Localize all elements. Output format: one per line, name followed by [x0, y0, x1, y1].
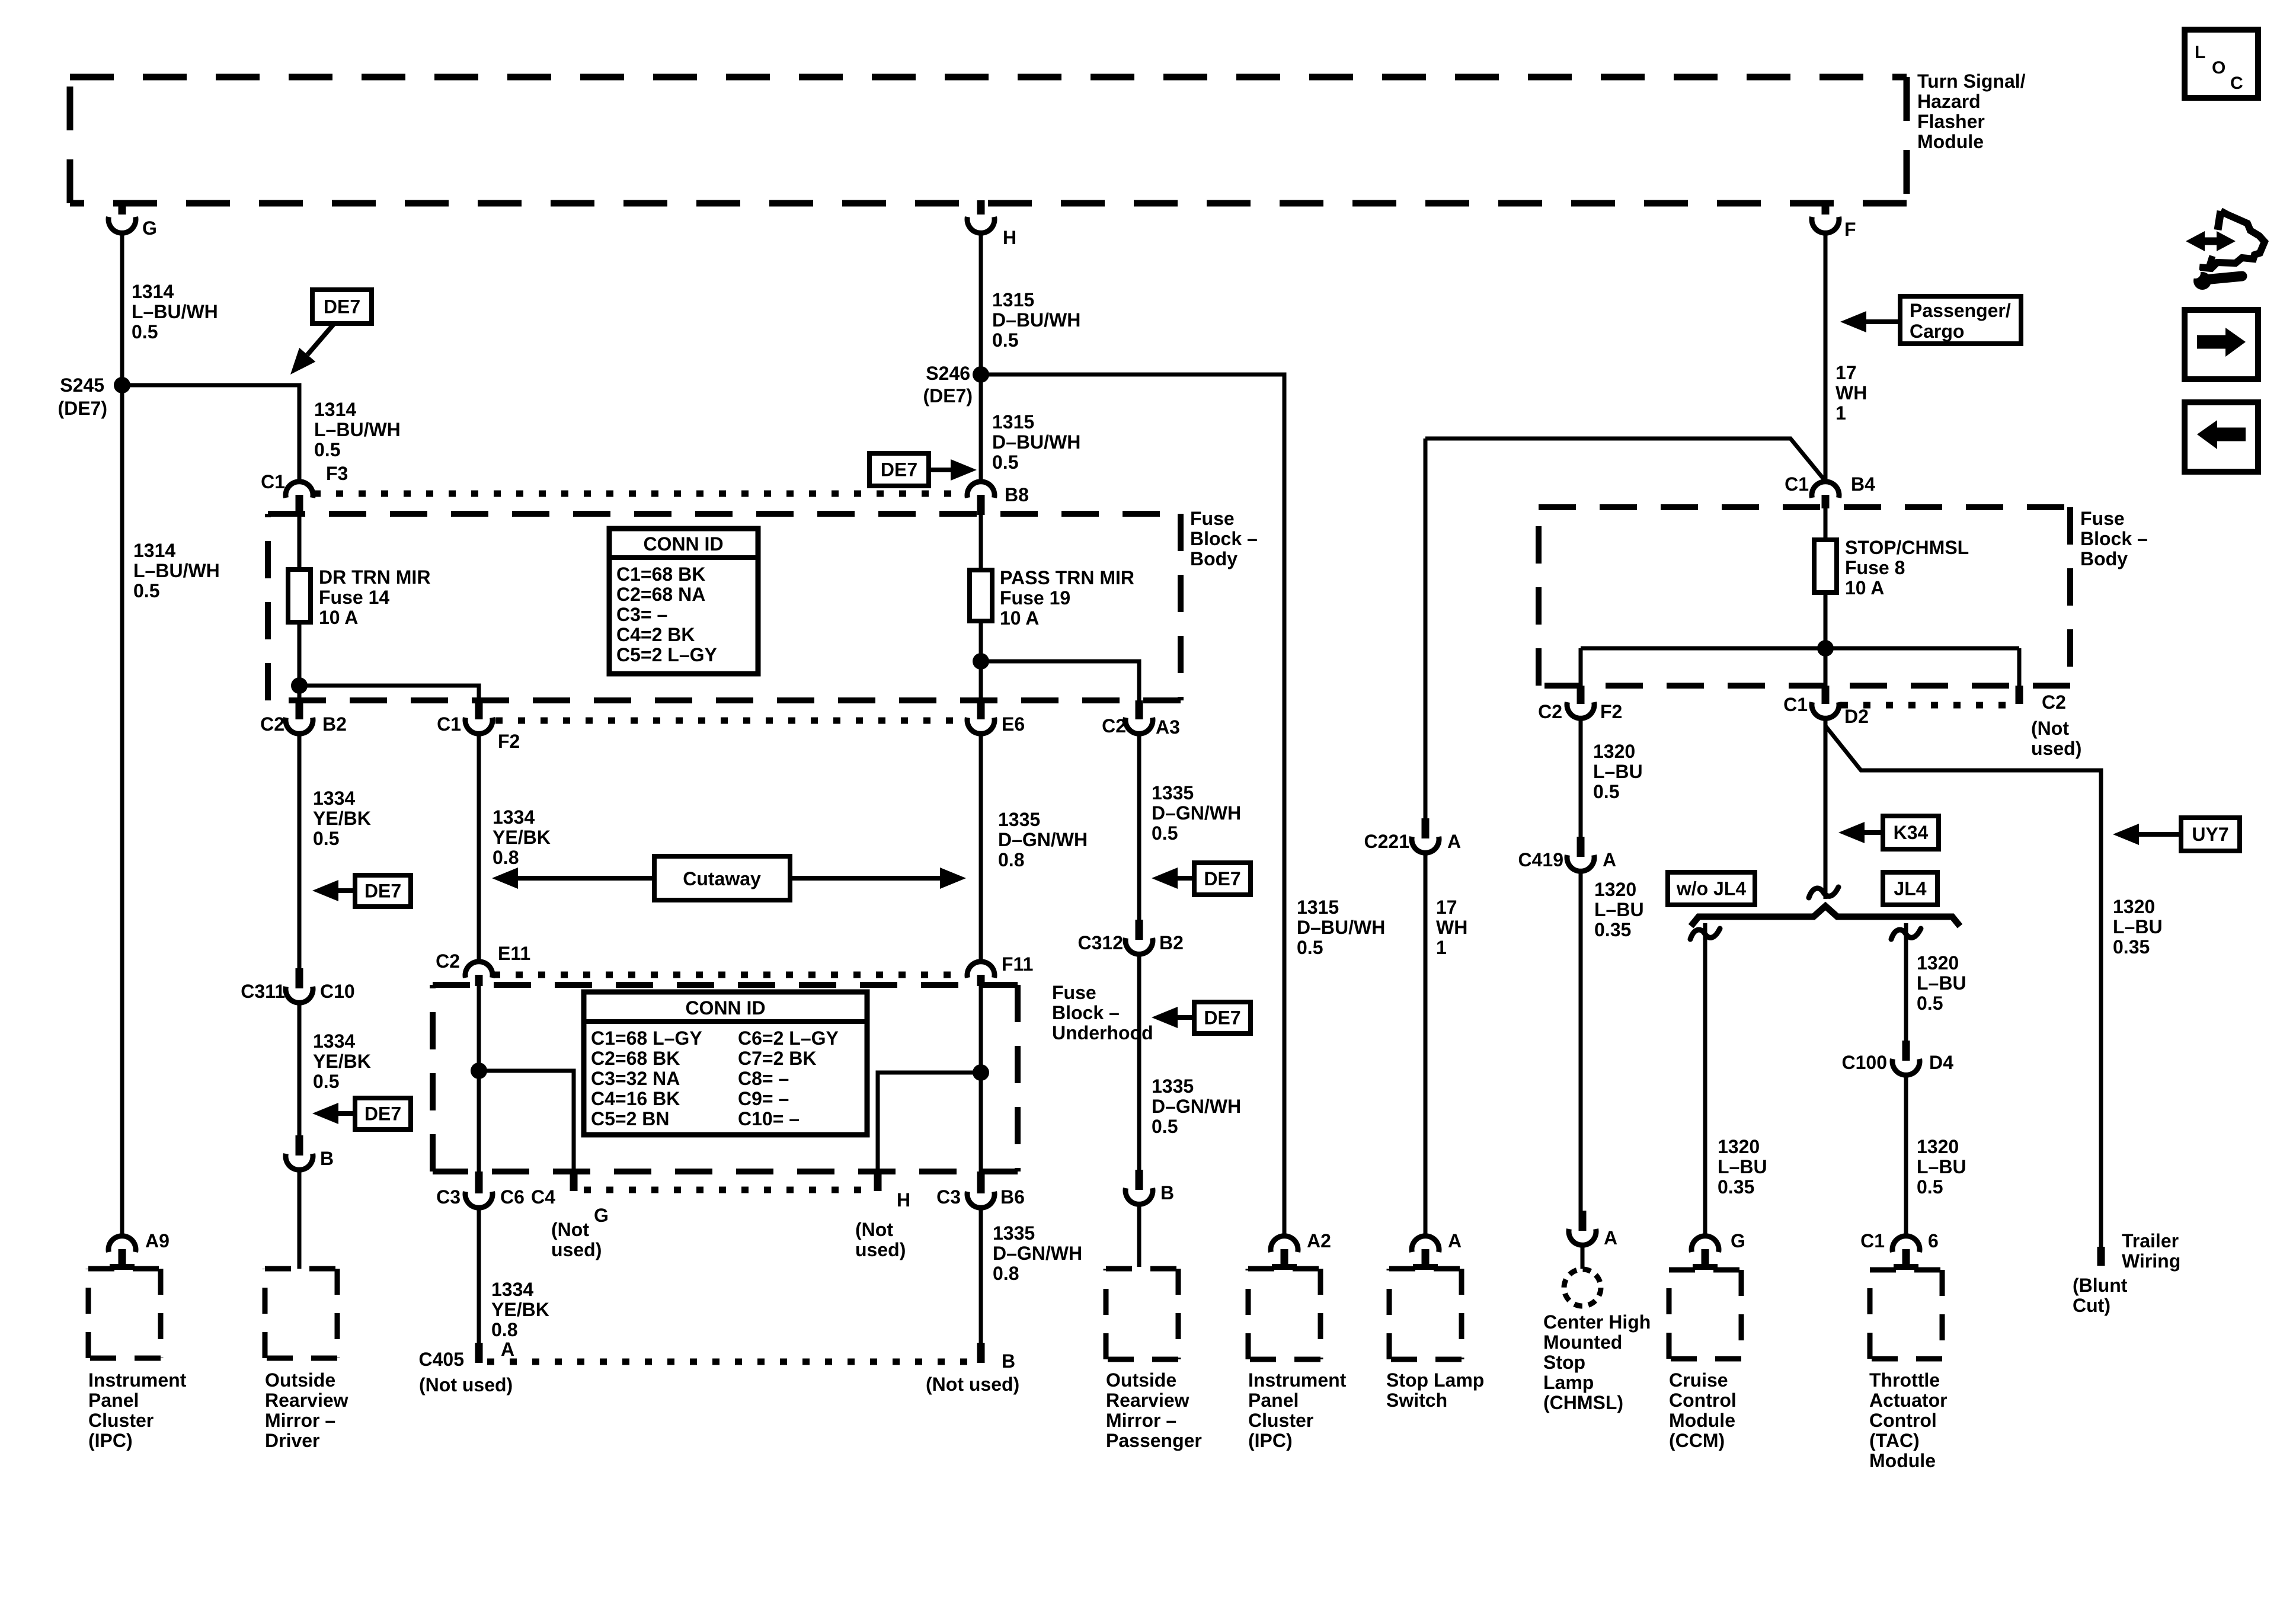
svg-text:C2: C2 — [1538, 701, 1562, 722]
svg-text:Fuse: Fuse — [1052, 982, 1096, 1003]
svg-text:Panel: Panel — [88, 1390, 139, 1411]
svg-text:A9: A9 — [145, 1230, 170, 1251]
svg-text:w/o JL4: w/o JL4 — [1676, 878, 1747, 900]
svg-text:C1=68 L–GY: C1=68 L–GY — [591, 1028, 702, 1049]
svg-text:DE7: DE7 — [1204, 1007, 1240, 1029]
svg-text:used): used) — [2031, 738, 2081, 759]
svg-text:D–BU/WH: D–BU/WH — [992, 431, 1080, 453]
svg-text:Fuse 8: Fuse 8 — [1845, 557, 1905, 578]
svg-text:0.8: 0.8 — [998, 849, 1024, 870]
svg-text:G: G — [594, 1205, 609, 1226]
svg-text:DE7: DE7 — [881, 459, 917, 481]
svg-text:17: 17 — [1835, 362, 1857, 383]
svg-text:Control: Control — [1869, 1410, 1937, 1431]
svg-text:Fuse 14: Fuse 14 — [319, 587, 389, 608]
svg-text:WH: WH — [1835, 382, 1867, 404]
svg-text:JL4: JL4 — [1894, 878, 1926, 900]
svg-text:UY7: UY7 — [2192, 824, 2228, 845]
svg-text:C10= –: C10= – — [738, 1108, 800, 1129]
svg-text:C311: C311 — [241, 981, 285, 1002]
svg-text:0.5: 0.5 — [314, 439, 340, 460]
svg-text:DR TRN MIR: DR TRN MIR — [319, 566, 430, 588]
svg-text:1334: 1334 — [493, 806, 535, 828]
svg-text:CONN ID: CONN ID — [643, 533, 723, 555]
svg-text:(Not: (Not — [855, 1219, 893, 1240]
svg-text:Cargo: Cargo — [1910, 321, 1964, 342]
svg-text:(Not used): (Not used) — [926, 1374, 1019, 1395]
svg-text:F: F — [1844, 219, 1856, 240]
svg-text:B: B — [1160, 1182, 1174, 1204]
svg-text:C4: C4 — [531, 1186, 555, 1208]
svg-text:D4: D4 — [1929, 1052, 1953, 1073]
svg-text:0.5: 0.5 — [992, 329, 1018, 351]
svg-text:C: C — [2230, 73, 2243, 93]
svg-text:B6: B6 — [1000, 1186, 1025, 1208]
svg-text:1314: 1314 — [132, 281, 174, 302]
svg-text:Rearview: Rearview — [265, 1390, 348, 1411]
svg-text:C1: C1 — [261, 471, 285, 492]
svg-text:1314: 1314 — [314, 399, 356, 420]
svg-text:A2: A2 — [1307, 1230, 1331, 1251]
svg-text:L–BU: L–BU — [1593, 761, 1643, 782]
svg-text:CONN ID: CONN ID — [685, 997, 765, 1019]
svg-text:C3: C3 — [936, 1186, 961, 1208]
svg-text:A: A — [1604, 1227, 1617, 1249]
svg-text:A: A — [1447, 831, 1461, 852]
svg-text:Hazard: Hazard — [1917, 91, 1981, 112]
svg-text:C1: C1 — [437, 713, 461, 735]
svg-text:C5=2 BN: C5=2 BN — [591, 1108, 670, 1129]
svg-text:C3= –: C3= – — [616, 604, 667, 625]
svg-text:Wiring: Wiring — [2122, 1250, 2180, 1272]
svg-text:PASS TRN MIR: PASS TRN MIR — [1000, 567, 1134, 588]
svg-text:0.35: 0.35 — [1594, 919, 1631, 940]
svg-text:C221: C221 — [1364, 831, 1410, 852]
svg-text:L–BU/WH: L–BU/WH — [314, 419, 401, 440]
svg-text:Instrument: Instrument — [1248, 1369, 1347, 1391]
svg-text:Mounted: Mounted — [1543, 1331, 1622, 1353]
svg-text:0.5: 0.5 — [1917, 993, 1943, 1014]
svg-text:C8= –: C8= – — [738, 1068, 789, 1089]
svg-text:C100: C100 — [1842, 1052, 1888, 1073]
svg-text:Lamp: Lamp — [1543, 1372, 1594, 1393]
svg-text:1335: 1335 — [1152, 1076, 1194, 1097]
svg-text:1335: 1335 — [993, 1222, 1035, 1244]
svg-text:Mirror –: Mirror – — [265, 1410, 335, 1431]
svg-text:F11: F11 — [1002, 953, 1033, 975]
svg-text:Passenger/: Passenger/ — [1910, 300, 2011, 321]
svg-text:C419: C419 — [1518, 849, 1564, 870]
svg-text:Turn Signal/: Turn Signal/ — [1917, 71, 2026, 92]
svg-text:D–GN/WH: D–GN/WH — [1152, 1096, 1241, 1117]
svg-text:(CHMSL): (CHMSL) — [1543, 1392, 1623, 1413]
svg-text:0.8: 0.8 — [491, 1319, 517, 1340]
svg-text:Switch: Switch — [1386, 1390, 1447, 1411]
svg-text:C6=2 L–GY: C6=2 L–GY — [738, 1028, 839, 1049]
svg-text:L–BU/WH: L–BU/WH — [133, 560, 220, 581]
svg-text:(DE7): (DE7) — [923, 385, 973, 406]
svg-text:C5=2 L–GY: C5=2 L–GY — [616, 644, 717, 665]
svg-text:6: 6 — [1928, 1230, 1939, 1251]
svg-text:B8: B8 — [1005, 484, 1029, 505]
svg-text:(Not: (Not — [551, 1219, 589, 1240]
svg-text:(Not used): (Not used) — [419, 1374, 513, 1395]
svg-text:H: H — [897, 1189, 910, 1211]
svg-text:L–BU: L–BU — [1718, 1156, 1767, 1177]
svg-text:0.35: 0.35 — [1718, 1176, 1754, 1198]
svg-text:(IPC): (IPC) — [88, 1430, 133, 1451]
svg-text:C1: C1 — [1860, 1230, 1885, 1251]
svg-text:1320: 1320 — [1917, 1136, 1959, 1157]
svg-text:0.5: 0.5 — [133, 580, 159, 601]
svg-text:Flasher: Flasher — [1917, 111, 1985, 132]
svg-text:L–BU/WH: L–BU/WH — [132, 301, 218, 322]
svg-text:Cutaway: Cutaway — [683, 868, 761, 889]
svg-text:Outside: Outside — [1106, 1369, 1176, 1391]
svg-text:0.5: 0.5 — [992, 452, 1018, 473]
svg-text:A: A — [1603, 849, 1616, 870]
svg-text:A: A — [501, 1339, 514, 1360]
svg-text:C2: C2 — [2042, 692, 2066, 713]
svg-text:Underhood: Underhood — [1052, 1022, 1153, 1044]
svg-text:17: 17 — [1436, 897, 1457, 918]
svg-text:Block –: Block – — [1190, 528, 1258, 549]
svg-text:G: G — [142, 217, 157, 239]
svg-text:Center High: Center High — [1543, 1311, 1651, 1333]
svg-text:L–BU: L–BU — [2113, 916, 2163, 937]
svg-text:Actuator: Actuator — [1869, 1390, 1948, 1411]
svg-text:Throttle: Throttle — [1869, 1369, 1940, 1391]
svg-text:0.5: 0.5 — [132, 321, 158, 343]
svg-text:B: B — [1002, 1350, 1015, 1372]
svg-text:0.5: 0.5 — [1917, 1176, 1943, 1198]
svg-text:0.8: 0.8 — [993, 1263, 1019, 1284]
svg-text:A: A — [1448, 1230, 1462, 1251]
svg-text:F2: F2 — [498, 731, 520, 752]
svg-text:Body: Body — [1190, 548, 1237, 569]
svg-text:0.8: 0.8 — [493, 847, 519, 868]
svg-text:DE7: DE7 — [364, 1103, 401, 1125]
svg-text:L–BU: L–BU — [1917, 972, 1966, 994]
svg-text:1320: 1320 — [1718, 1136, 1760, 1157]
svg-text:D–BU/WH: D–BU/WH — [1297, 917, 1385, 938]
svg-text:A3: A3 — [1156, 716, 1180, 738]
svg-text:1335: 1335 — [998, 809, 1040, 830]
svg-text:Rearview: Rearview — [1106, 1390, 1189, 1411]
svg-text:C3: C3 — [436, 1186, 461, 1208]
svg-text:H: H — [1003, 227, 1016, 248]
svg-text:O: O — [2212, 58, 2225, 78]
svg-text:Instrument: Instrument — [88, 1369, 187, 1391]
svg-text:Trailer: Trailer — [2122, 1230, 2179, 1251]
svg-text:0.35: 0.35 — [2113, 936, 2150, 958]
svg-text:S245: S245 — [60, 375, 104, 396]
svg-text:0.5: 0.5 — [313, 1071, 339, 1092]
svg-text:1334: 1334 — [491, 1279, 533, 1300]
svg-text:F3: F3 — [326, 463, 348, 484]
svg-text:Stop: Stop — [1543, 1352, 1585, 1373]
svg-text:Driver: Driver — [265, 1430, 320, 1451]
svg-text:10 A: 10 A — [319, 607, 358, 628]
svg-text:K34: K34 — [1894, 822, 1929, 843]
svg-text:Fuse 19: Fuse 19 — [1000, 587, 1070, 609]
svg-text:C2: C2 — [436, 950, 460, 972]
svg-text:DE7: DE7 — [364, 881, 401, 902]
svg-text:YE/BK: YE/BK — [493, 827, 551, 848]
svg-text:D–GN/WH: D–GN/WH — [1152, 802, 1241, 824]
svg-text:Module: Module — [1917, 131, 1984, 152]
svg-text:C10: C10 — [320, 981, 355, 1002]
svg-text:C6: C6 — [500, 1186, 525, 1208]
svg-text:D–GN/WH: D–GN/WH — [993, 1243, 1082, 1264]
svg-text:C405: C405 — [419, 1349, 465, 1370]
svg-text:0.5: 0.5 — [1152, 1116, 1178, 1137]
svg-text:1: 1 — [1436, 937, 1447, 958]
svg-text:C3=32 NA: C3=32 NA — [591, 1068, 680, 1089]
svg-text:C2=68 NA: C2=68 NA — [616, 584, 705, 605]
svg-text:B2: B2 — [1159, 932, 1184, 953]
svg-text:YE/BK: YE/BK — [313, 1051, 371, 1072]
svg-text:1315: 1315 — [992, 411, 1034, 433]
svg-text:(CCM): (CCM) — [1669, 1430, 1725, 1451]
svg-text:C2=68 BK: C2=68 BK — [591, 1048, 680, 1069]
svg-text:DE7: DE7 — [1204, 868, 1240, 889]
svg-text:(Not: (Not — [2031, 718, 2069, 739]
svg-text:1315: 1315 — [1297, 897, 1339, 918]
svg-text:(Blunt: (Blunt — [2073, 1275, 2128, 1296]
svg-text:0.5: 0.5 — [313, 828, 339, 849]
svg-text:Cluster: Cluster — [88, 1410, 154, 1431]
svg-text:Cruise: Cruise — [1669, 1369, 1728, 1391]
svg-text:1320: 1320 — [1917, 952, 1959, 974]
svg-text:C1: C1 — [1783, 694, 1808, 715]
svg-text:Fuse: Fuse — [1190, 508, 1235, 529]
svg-text:Cut): Cut) — [2073, 1295, 2110, 1316]
svg-text:C4=16 BK: C4=16 BK — [591, 1088, 680, 1109]
svg-text:1334: 1334 — [313, 1030, 355, 1052]
svg-text:DE7: DE7 — [324, 296, 360, 318]
svg-text:1320: 1320 — [1593, 741, 1635, 762]
svg-text:E11: E11 — [498, 943, 530, 964]
svg-text:used): used) — [855, 1239, 906, 1260]
svg-text:WH: WH — [1436, 917, 1467, 938]
svg-text:L–BU: L–BU — [1594, 899, 1644, 920]
svg-text:Passenger: Passenger — [1106, 1430, 1202, 1451]
svg-text:C1=68 BK: C1=68 BK — [616, 564, 705, 585]
svg-text:10 A: 10 A — [1845, 577, 1884, 598]
svg-text:Body: Body — [2080, 548, 2128, 569]
svg-text:Control: Control — [1669, 1390, 1737, 1411]
svg-text:C1: C1 — [1785, 473, 1809, 495]
svg-text:C2: C2 — [1102, 715, 1126, 737]
svg-text:1: 1 — [1835, 402, 1846, 424]
svg-text:(IPC): (IPC) — [1248, 1430, 1293, 1451]
svg-text:YE/BK: YE/BK — [313, 808, 371, 829]
svg-text:B2: B2 — [322, 713, 347, 735]
svg-text:Module: Module — [1869, 1450, 1936, 1471]
svg-text:1315: 1315 — [992, 289, 1034, 311]
svg-text:10 A: 10 A — [1000, 607, 1039, 629]
svg-text:0.5: 0.5 — [1297, 937, 1323, 958]
svg-text:Panel: Panel — [1248, 1390, 1299, 1411]
svg-text:S246: S246 — [926, 363, 970, 384]
svg-text:Stop Lamp: Stop Lamp — [1386, 1369, 1484, 1391]
svg-text:B4: B4 — [1851, 473, 1875, 495]
svg-text:C2: C2 — [260, 713, 284, 735]
svg-text:Block –: Block – — [1052, 1002, 1120, 1023]
svg-text:D–BU/WH: D–BU/WH — [992, 309, 1080, 331]
svg-text:F2: F2 — [1600, 701, 1622, 722]
svg-text:Mirror –: Mirror – — [1106, 1410, 1176, 1431]
svg-text:Fuse: Fuse — [2080, 508, 2125, 529]
svg-text:Outside: Outside — [265, 1369, 335, 1391]
svg-text:Module: Module — [1669, 1410, 1735, 1431]
svg-text:Block –: Block – — [2080, 528, 2148, 549]
svg-text:(DE7): (DE7) — [57, 398, 107, 419]
svg-text:L: L — [2195, 43, 2205, 62]
svg-text:1334: 1334 — [313, 788, 355, 809]
svg-text:C7=2 BK: C7=2 BK — [738, 1048, 817, 1069]
svg-text:(TAC): (TAC) — [1869, 1430, 1920, 1451]
svg-text:1314: 1314 — [133, 540, 175, 561]
svg-text:E6: E6 — [1002, 713, 1025, 735]
svg-text:D–GN/WH: D–GN/WH — [998, 829, 1088, 850]
svg-text:C312: C312 — [1078, 932, 1124, 953]
svg-text:1320: 1320 — [1594, 879, 1636, 900]
svg-text:G: G — [1731, 1230, 1745, 1251]
svg-text:D2: D2 — [1844, 706, 1869, 727]
svg-text:L–BU: L–BU — [1917, 1156, 1966, 1177]
svg-text:YE/BK: YE/BK — [491, 1299, 549, 1320]
svg-text:STOP/CHMSL: STOP/CHMSL — [1845, 537, 1969, 558]
svg-text:1320: 1320 — [2113, 896, 2155, 917]
svg-text:B: B — [320, 1148, 334, 1169]
svg-text:Cluster: Cluster — [1248, 1410, 1313, 1431]
svg-text:1335: 1335 — [1152, 782, 1194, 804]
svg-text:used): used) — [551, 1239, 602, 1260]
svg-text:0.5: 0.5 — [1593, 781, 1619, 802]
svg-text:C4=2 BK: C4=2 BK — [616, 624, 695, 645]
svg-text:0.5: 0.5 — [1152, 822, 1178, 844]
svg-text:C9= –: C9= – — [738, 1088, 789, 1109]
